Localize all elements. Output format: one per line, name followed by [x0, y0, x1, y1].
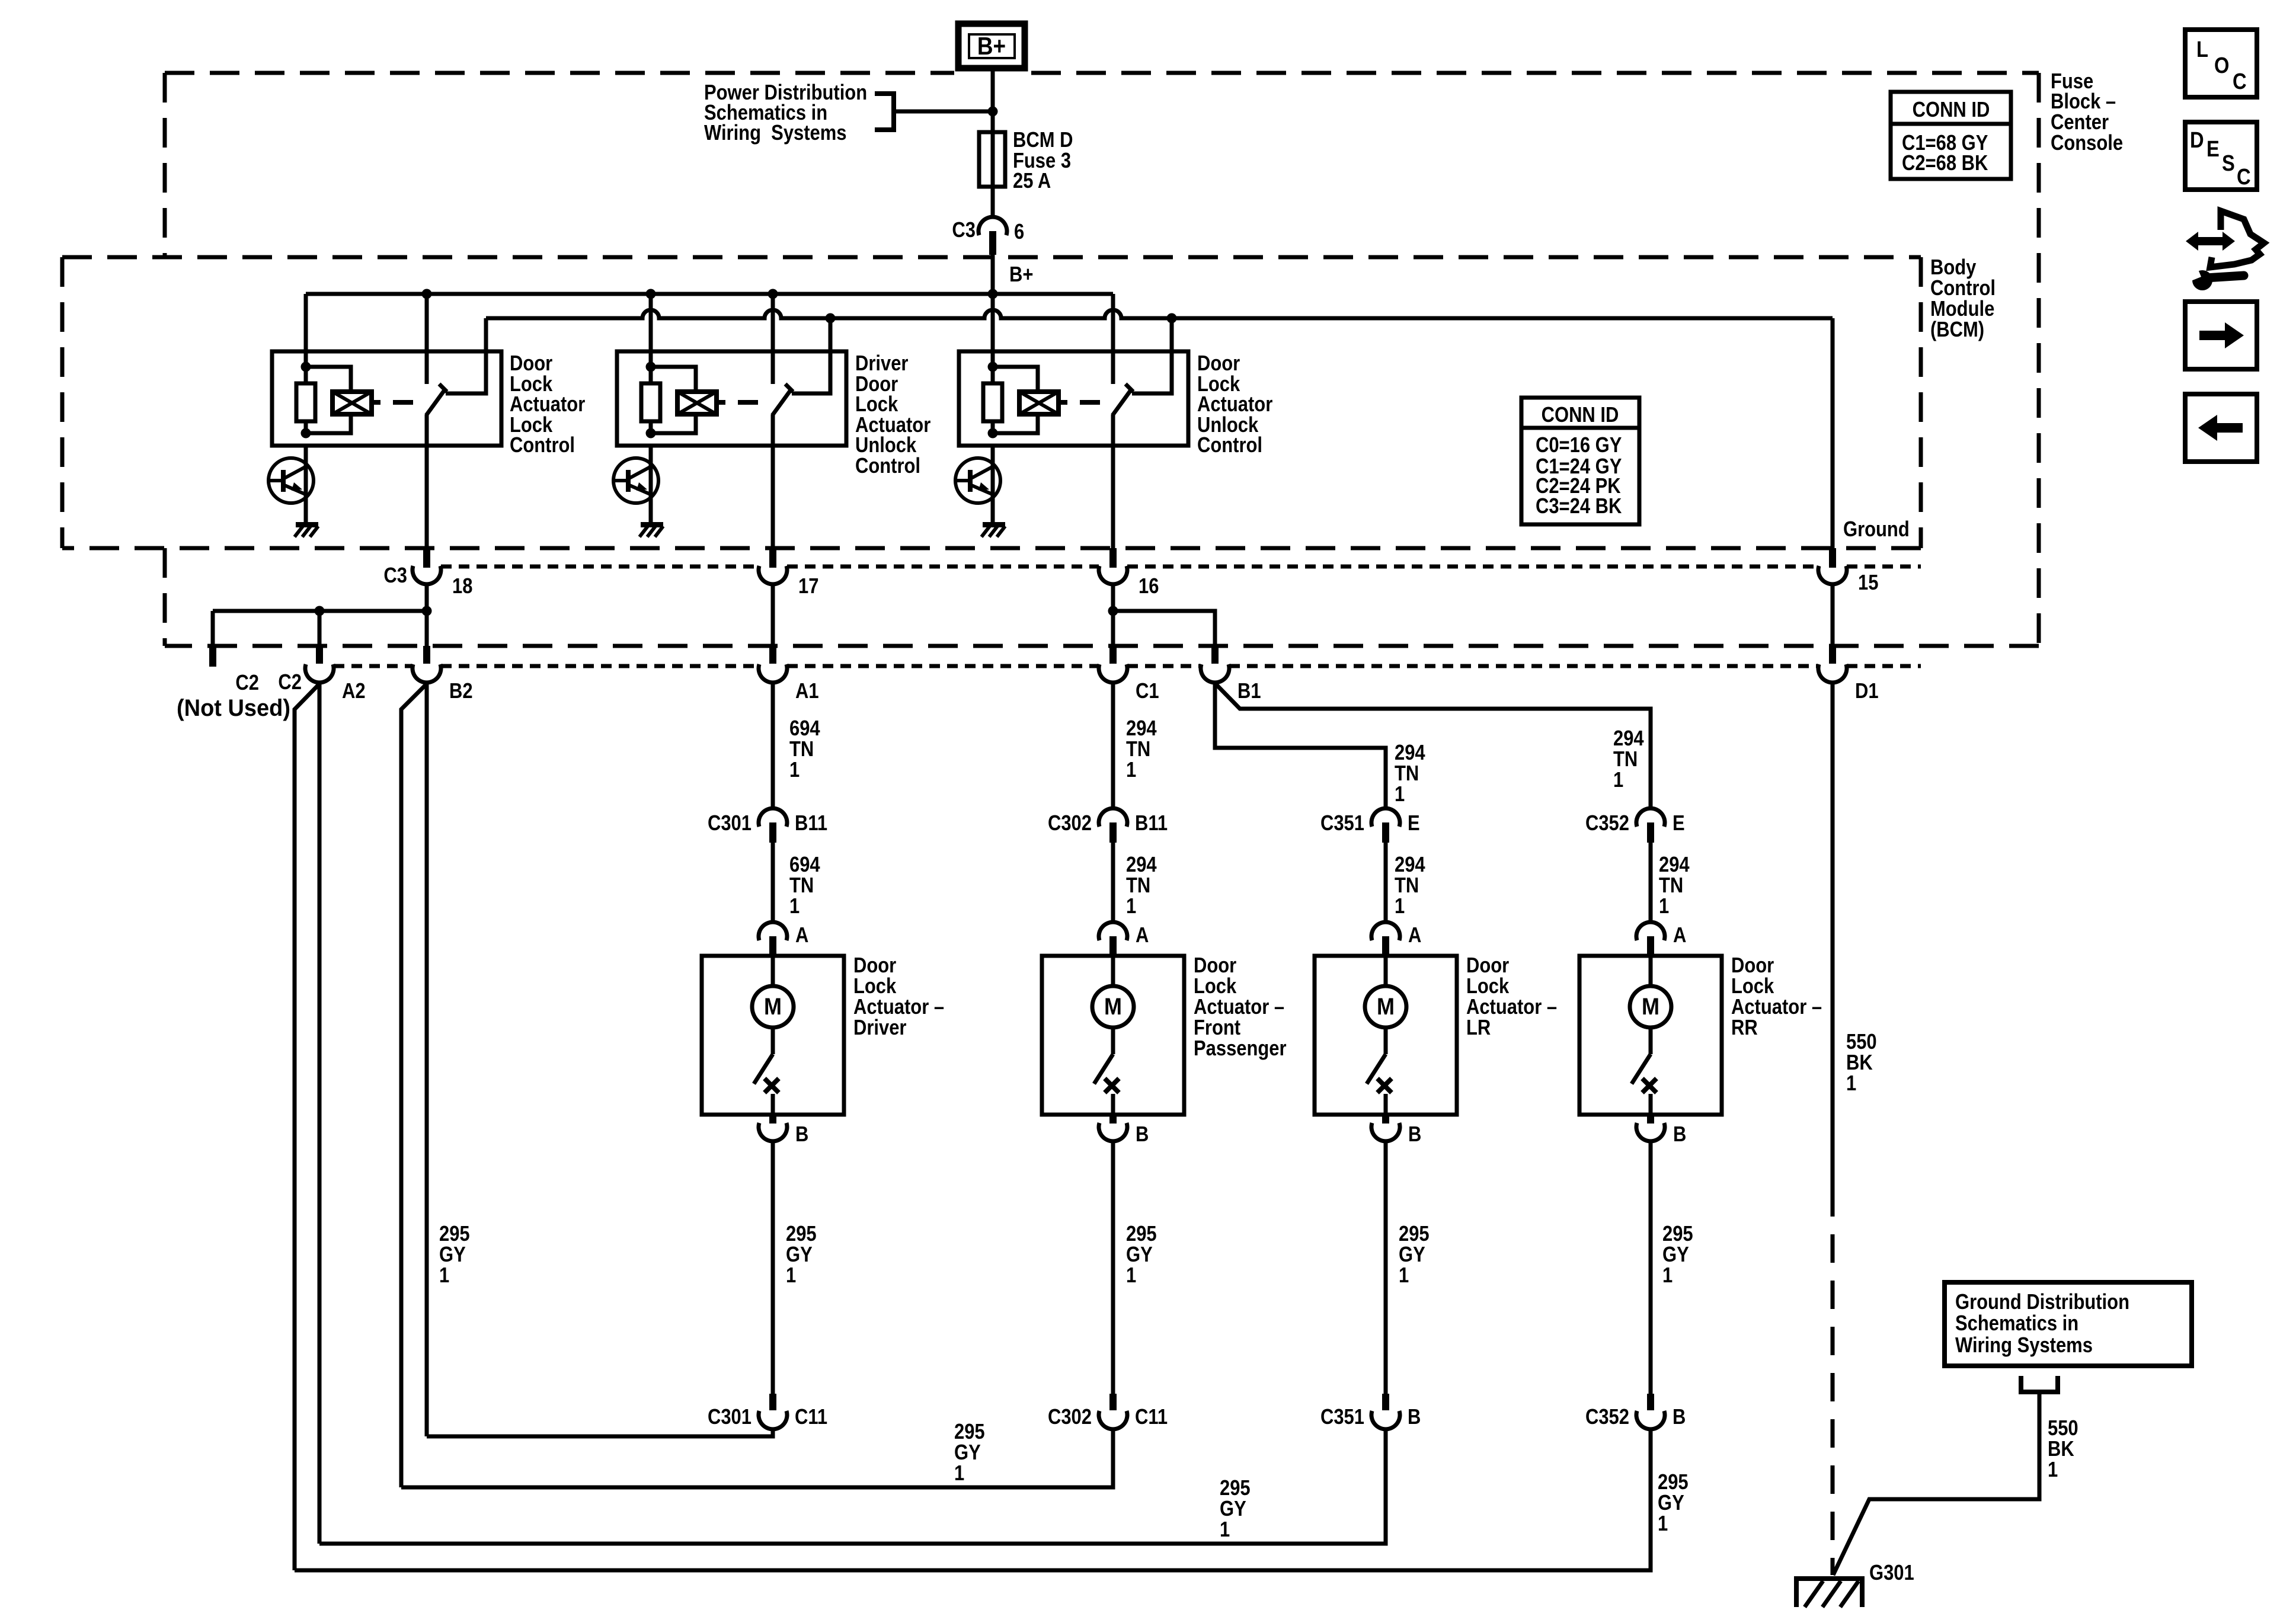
svg-text:1: 1: [2048, 1458, 2058, 1482]
relay switch fixed contact from B+: [771, 294, 775, 384]
connector C302 pin C11 lower: [1109, 1394, 1117, 1410]
svg-text:C352: C352: [1585, 1406, 1629, 1429]
svg-text:A: A: [1673, 924, 1686, 948]
wire driver actuator pin B down (295 GY): [771, 1141, 775, 1394]
transistor relay driver: [304, 446, 308, 524]
svg-text:GY: GY: [1658, 1491, 1684, 1515]
transistor relay driver: [649, 446, 653, 524]
svg-text:LR: LR: [1466, 1016, 1491, 1040]
wire C352 route to pin A2 diagonal wire: [295, 1429, 1651, 1570]
svg-text:1: 1: [786, 1264, 796, 1288]
node junction pin16 to B1: [1108, 606, 1118, 616]
svg-text:B2: B2: [449, 680, 473, 703]
connector actuator pin B (Driver): [769, 1115, 776, 1124]
relay coil top node: [988, 362, 998, 372]
relay switch fixed contact from B+: [1111, 294, 1115, 384]
svg-text:C302: C302: [1048, 812, 1092, 836]
svg-text:Actuator –: Actuator –: [1194, 996, 1284, 1019]
svg-text:B: B: [1408, 1406, 1421, 1429]
svg-text:C2: C2: [235, 671, 259, 695]
svg-text:C2: C2: [278, 671, 302, 694]
wire junction to pin A2: [318, 611, 322, 646]
svg-text:TN: TN: [1613, 748, 1638, 772]
motor M: [1092, 986, 1134, 1028]
svg-text:A: A: [1408, 924, 1421, 948]
resistor relay coil suppression: [304, 367, 308, 383]
svg-text:Wiring Systems: Wiring Systems: [1955, 1334, 2093, 1358]
svg-text:TN: TN: [1395, 762, 1419, 786]
connector C351 pin E: [1371, 808, 1400, 827]
connector actuator pin A (Driver): [759, 922, 787, 940]
connector C2 pin B1: [1211, 646, 1219, 664]
wire pin B1 to LR door lock actuator: [1215, 681, 1386, 808]
node B+ rail to relay2 switch: [768, 289, 778, 299]
svg-text:Actuator: Actuator: [510, 393, 585, 417]
wire parallel branch to solenoid: [306, 367, 351, 392]
svg-text:C3=24 BK: C3=24 BK: [1536, 495, 1622, 518]
svg-text:550: 550: [1846, 1030, 1877, 1054]
icon vehicle with double arrow and wrench: [2186, 232, 2235, 251]
svg-text:1: 1: [1662, 1264, 1673, 1288]
svg-text:BK: BK: [2048, 1438, 2074, 1461]
wire parallel branch to solenoid: [993, 367, 1038, 392]
motor internal switch: [1384, 1028, 1388, 1054]
svg-text:C: C: [2237, 164, 2251, 190]
svg-text:Lock: Lock: [1466, 975, 1510, 998]
door lock actuator motor box (RR): [1579, 956, 1722, 1115]
relay switch output wire: [1111, 415, 1115, 548]
relay coil bottom node: [301, 428, 311, 438]
relay switch ground contact feed: [446, 318, 486, 393]
svg-text:Lock: Lock: [855, 393, 898, 417]
svg-text:GY: GY: [1662, 1243, 1689, 1267]
svg-text:17: 17: [798, 575, 818, 598]
relay coil feed wire: [649, 294, 653, 367]
pin C2 not used stub: [209, 646, 216, 667]
svg-text:Actuator –: Actuator –: [853, 996, 944, 1019]
connector D1 to ground wire 550 BK solid: [1831, 683, 1835, 1188]
svg-text:C351: C351: [1320, 1406, 1364, 1429]
motor internal switch: [1649, 1028, 1653, 1054]
svg-text:GY: GY: [439, 1243, 466, 1267]
wire C352 to RR actuator pin A (294 TN): [1649, 843, 1653, 923]
svg-text:294: 294: [1126, 717, 1157, 741]
svg-text:Control: Control: [510, 434, 575, 457]
connector actuator pin B (LR): [1382, 1115, 1389, 1124]
svg-text:Center: Center: [2051, 111, 2109, 135]
icon LOC box: [2185, 30, 2257, 97]
wire note box to ground G301 (550 BK): [1833, 1392, 2039, 1575]
svg-text:B1: B1: [1237, 680, 1261, 703]
svg-text:294: 294: [1126, 853, 1157, 877]
svg-text:694: 694: [789, 853, 820, 877]
svg-text:E: E: [2207, 136, 2220, 162]
svg-text:Lock: Lock: [1731, 975, 1774, 998]
svg-text:1: 1: [1126, 895, 1136, 918]
connector C3 pin 18: [423, 548, 430, 568]
svg-text:15: 15: [1858, 571, 1878, 595]
svg-text:TN: TN: [789, 874, 814, 898]
svg-text:GY: GY: [954, 1441, 981, 1465]
relay switch output wire: [425, 415, 429, 548]
svg-text:Ground Distribution: Ground Distribution: [1955, 1291, 2129, 1314]
svg-text:Door: Door: [1194, 954, 1236, 978]
resistor relay coil suppression: [991, 367, 995, 383]
svg-text:1: 1: [1126, 1264, 1136, 1288]
svg-text:C302: C302: [1048, 1406, 1092, 1429]
svg-text:B: B: [795, 1123, 808, 1147]
svg-text:A2: A2: [342, 680, 366, 703]
wire junction bus to A2 and C2 not used: [213, 609, 427, 613]
svg-text:B: B: [1673, 1123, 1686, 1147]
svg-text:Actuator –: Actuator –: [1466, 996, 1557, 1019]
motor M: [752, 986, 794, 1028]
motor internal switch: [1111, 1028, 1115, 1054]
ground chassis at transistor: [296, 522, 318, 527]
svg-text:B: B: [1673, 1406, 1686, 1429]
svg-text:1: 1: [1399, 1264, 1409, 1288]
svg-text:1: 1: [1395, 783, 1405, 806]
connector C352 pin B lower: [1647, 1394, 1654, 1410]
ground chassis at transistor: [641, 522, 663, 527]
connector row C3 dotted line: [441, 565, 759, 569]
relay coil bottom node: [646, 428, 656, 438]
svg-text:C351: C351: [1320, 812, 1364, 836]
wire C301 route to pin B2 wire: [427, 1429, 773, 1436]
relay coil feed wire: [304, 294, 308, 367]
svg-text:(Not Used): (Not Used): [177, 695, 290, 721]
svg-text:Ground: Ground: [1843, 518, 1910, 542]
Body Control Module (BCM) dashed box: [62, 255, 1921, 260]
battery terminal B+: [958, 24, 1025, 68]
svg-text:294: 294: [1613, 727, 1644, 751]
Fuse Block - Center Console dashed box: [165, 71, 954, 75]
relay switch arm: [772, 389, 791, 415]
svg-text:E: E: [1408, 812, 1420, 836]
mechanical linkage dashed: [717, 400, 725, 405]
mechanical linkage dashed: [1059, 400, 1067, 405]
svg-text:Door: Door: [1731, 954, 1774, 978]
note box Ground Distribution Schematics in Wiring Systems: [1945, 1282, 2192, 1366]
svg-text:B+: B+: [977, 33, 1006, 60]
svg-text:1: 1: [1126, 758, 1136, 782]
svg-text:S: S: [2222, 151, 2235, 176]
wire pin A2 branch 2 diagonal (295 GY to RR): [295, 684, 319, 1570]
svg-text:C3: C3: [952, 219, 976, 242]
svg-text:BK: BK: [1846, 1051, 1873, 1075]
svg-text:Passenger: Passenger: [1194, 1037, 1287, 1061]
connector actuator pin A (LR): [1371, 922, 1400, 940]
node junction at pin18/B2: [422, 606, 432, 616]
wire branch to pin B1: [1113, 611, 1215, 646]
icon arrow right box: [2185, 302, 2257, 369]
motor internal switch: [771, 1028, 775, 1054]
door lock actuator motor box (Passenger): [1042, 956, 1184, 1115]
connector C2 pin A2: [316, 646, 323, 664]
svg-text:TN: TN: [1126, 738, 1150, 761]
relay switch ground contact feed: [1132, 318, 1172, 393]
switch X contact mark: [1377, 1078, 1392, 1093]
wire C302 to front passenger actuator pin A (294 TN): [1111, 843, 1115, 923]
CONN ID table BCM: [1521, 398, 1639, 524]
svg-text:1: 1: [1658, 1512, 1668, 1536]
relay switch arm: [1112, 389, 1131, 415]
svg-text:Driver: Driver: [855, 352, 908, 376]
relay switch arm: [426, 389, 445, 415]
wire pin 18 to junction: [425, 584, 429, 646]
node junction at fuse input: [988, 107, 998, 117]
svg-text:18: 18: [452, 575, 472, 598]
wire pin A1 to C301 (694 TN): [771, 681, 775, 808]
svg-text:Block –: Block –: [2051, 90, 2116, 114]
wire bracket to B+ node: [894, 110, 993, 114]
svg-text:C301: C301: [708, 1406, 752, 1429]
svg-text:O: O: [2214, 53, 2229, 78]
svg-text:(BCM): (BCM): [1930, 318, 1984, 342]
svg-text:Schematics in: Schematics in: [1955, 1312, 2078, 1336]
svg-text:16: 16: [1139, 575, 1159, 598]
svg-text:295: 295: [1220, 1477, 1251, 1500]
relay coil bottom node: [988, 428, 998, 438]
svg-text:C11: C11: [1135, 1406, 1168, 1429]
motor M: [1630, 986, 1671, 1028]
svg-text:694: 694: [789, 717, 820, 741]
svg-text:CONN ID: CONN ID: [1542, 404, 1619, 427]
svg-text:295: 295: [439, 1222, 470, 1246]
svg-text:295: 295: [1126, 1222, 1157, 1246]
connector C3 pin 16: [1109, 548, 1117, 568]
connector C2 pin D1: [1829, 646, 1836, 664]
svg-text:M: M: [764, 994, 782, 1020]
switch X contact mark: [1642, 1078, 1657, 1093]
wire C351 to LR actuator pin A (294 TN): [1384, 843, 1388, 923]
svg-text:B: B: [1136, 1123, 1149, 1147]
svg-text:E: E: [1673, 812, 1685, 836]
node junction to pin A2: [315, 606, 325, 616]
resistor relay coil suppression: [649, 367, 653, 383]
svg-text:1: 1: [1846, 1072, 1856, 1096]
transistor relay driver: [991, 446, 995, 524]
connector row C2 dotted line: [334, 664, 412, 668]
svg-text:Unlock: Unlock: [855, 434, 916, 457]
connector C3 pin 6: [978, 217, 1007, 235]
door lock actuator motor box (Driver): [702, 956, 844, 1115]
svg-text:1: 1: [789, 758, 800, 782]
wire pin 17 down to A1: [771, 584, 775, 646]
node B+ rail to relay1 switch: [422, 289, 432, 299]
svg-text:Lock: Lock: [853, 975, 897, 998]
svg-text:TN: TN: [1659, 874, 1683, 898]
svg-text:25 A: 25 A: [1013, 169, 1051, 193]
wire B+ rail inside BCM: [306, 292, 1113, 296]
svg-text:C0=16 GY: C0=16 GY: [1536, 434, 1622, 457]
connector bracket under note box: [2021, 1376, 2058, 1392]
relay box door lock (Driver): [617, 351, 846, 446]
wire fuse to connector C3 pin 6: [991, 187, 995, 218]
solenoid relay coil symbol: [677, 392, 717, 414]
node B+ rail at main feed: [988, 289, 998, 299]
svg-text:295: 295: [1399, 1222, 1430, 1246]
svg-text:B: B: [1408, 1123, 1421, 1147]
wire pin 16 down to C1: [1111, 584, 1115, 646]
svg-text:TN: TN: [1126, 874, 1150, 898]
svg-text:1: 1: [1395, 895, 1405, 918]
svg-text:GY: GY: [786, 1243, 813, 1267]
relay coil top node: [301, 362, 311, 372]
ground G301 symbol: [1796, 1579, 1862, 1607]
svg-text:B11: B11: [1135, 812, 1168, 836]
switch X contact mark: [1105, 1078, 1119, 1093]
wire pin B1 diagonal to RR door lock actuator: [1215, 683, 1651, 808]
solenoid relay coil symbol: [332, 392, 372, 414]
svg-text:1: 1: [439, 1264, 449, 1288]
svg-text:1: 1: [789, 895, 800, 918]
svg-text:550: 550: [2048, 1417, 2078, 1441]
svg-text:A: A: [1136, 924, 1149, 948]
svg-text:294: 294: [1395, 741, 1425, 765]
bracket for power distribution note: [875, 94, 894, 130]
svg-text:1: 1: [954, 1462, 964, 1486]
relay coil feed wire: [991, 294, 995, 367]
svg-text:C: C: [2233, 69, 2247, 94]
wire ground bus inside BCM: [486, 310, 1833, 318]
connector C302 pin B11: [1099, 808, 1127, 827]
svg-text:A: A: [795, 924, 808, 948]
svg-text:TN: TN: [789, 738, 814, 761]
svg-text:Door: Door: [1466, 954, 1509, 978]
svg-text:6: 6: [1014, 220, 1024, 244]
svg-text:Console: Console: [2051, 132, 2123, 155]
connector actuator pin A (Passenger): [1099, 922, 1127, 940]
svg-text:Control: Control: [855, 454, 920, 478]
node ground bus to relay2 contact: [826, 313, 836, 324]
svg-text:G301: G301: [1869, 1561, 1914, 1585]
svg-text:M: M: [1642, 994, 1659, 1020]
svg-text:B+: B+: [1009, 263, 1033, 287]
svg-text:294: 294: [1659, 853, 1690, 877]
switch X contact mark: [765, 1078, 779, 1093]
svg-text:L: L: [2196, 37, 2208, 62]
svg-text:Body: Body: [1930, 256, 1977, 280]
connector C351 pin B lower: [1382, 1394, 1389, 1410]
svg-text:BCM D: BCM D: [1013, 129, 1073, 152]
svg-text:295: 295: [954, 1420, 985, 1444]
svg-text:RR: RR: [1731, 1016, 1758, 1040]
wire C302 route to pin B2 diagonal wire: [401, 1429, 1113, 1487]
svg-text:Wiring Systems: Wiring Systems: [704, 121, 847, 145]
svg-text:TN: TN: [1395, 874, 1419, 898]
solenoid relay coil symbol: [1019, 392, 1059, 414]
fuse BCM D Fuse 3 25 A: [979, 132, 1005, 187]
svg-text:D1: D1: [1855, 680, 1879, 703]
relay box door lock (Door): [272, 351, 501, 446]
svg-text:Door: Door: [1197, 352, 1240, 376]
svg-text:M: M: [1104, 994, 1122, 1020]
wire RR actuator pin B down (295 GY): [1649, 1141, 1653, 1394]
svg-text:D: D: [2190, 127, 2204, 153]
connector C352 pin E: [1636, 808, 1665, 827]
relay switch fixed contact from B+: [425, 294, 429, 384]
connector actuator pin B (RR): [1647, 1115, 1654, 1124]
svg-text:295: 295: [786, 1222, 817, 1246]
connector C2 pin C1: [1109, 646, 1117, 664]
wire B+ terminal to fuse: [991, 68, 995, 134]
svg-text:Lock: Lock: [1194, 975, 1237, 998]
icon arrow left box: [2185, 394, 2257, 462]
relay switch output wire: [771, 415, 775, 548]
node ground bus to relay3 contact: [1167, 313, 1177, 324]
node B+ rail to relay2 coil: [646, 289, 656, 299]
CONN ID table fuse block: [1891, 92, 2011, 179]
svg-text:295: 295: [1662, 1222, 1693, 1246]
svg-text:GY: GY: [1399, 1243, 1425, 1267]
svg-text:M: M: [1377, 994, 1395, 1020]
svg-text:A1: A1: [795, 680, 819, 703]
svg-text:294: 294: [1395, 853, 1425, 877]
svg-text:C3: C3: [383, 564, 407, 588]
door lock actuator motor box (LR): [1315, 956, 1457, 1115]
svg-text:Front: Front: [1194, 1016, 1240, 1040]
svg-text:GY: GY: [1220, 1497, 1246, 1521]
svg-text:Driver: Driver: [853, 1016, 906, 1040]
mechanical linkage dashed: [372, 400, 380, 405]
svg-text:C2=68 BK: C2=68 BK: [1902, 152, 1988, 175]
svg-text:Actuator –: Actuator –: [1731, 996, 1822, 1019]
svg-text:B11: B11: [795, 812, 827, 836]
svg-text:Control: Control: [1197, 434, 1262, 457]
svg-text:C11: C11: [795, 1406, 827, 1429]
wire parallel branch to solenoid: [651, 367, 696, 392]
svg-text:Door: Door: [853, 954, 896, 978]
connector actuator pin B (Passenger): [1109, 1115, 1117, 1124]
wire pin C1 to C302 (294 TN): [1111, 681, 1115, 808]
svg-text:Door: Door: [510, 352, 552, 376]
connector actuator pin A (RR): [1636, 922, 1665, 940]
connector C301 pin B11: [759, 808, 787, 827]
relay coil top node: [646, 362, 656, 372]
svg-text:CONN ID: CONN ID: [1913, 98, 1990, 122]
wire LR actuator pin B down (295 GY): [1384, 1141, 1388, 1394]
wire C301 to driver actuator pin A (694 TN): [771, 843, 775, 923]
svg-text:GY: GY: [1126, 1243, 1153, 1267]
relay switch ground contact feed: [792, 318, 830, 393]
wire pin B2 branch 1 (295 GY to driver): [425, 681, 429, 1436]
connector C2 pin A1: [769, 646, 776, 664]
svg-text:1: 1: [1659, 895, 1669, 918]
wire ground bus to BCM pin 15: [1831, 318, 1835, 548]
wire C351 route to pin A2 wire: [319, 1429, 1386, 1544]
connector C3 pin 15: [1829, 548, 1836, 568]
icon DESC box: [2185, 122, 2257, 190]
wire pin 15 down to D1: [1831, 584, 1835, 646]
connector C3 pin 17: [769, 548, 776, 568]
svg-text:C1: C1: [1136, 680, 1159, 703]
svg-text:Control: Control: [1930, 277, 1996, 300]
svg-text:C352: C352: [1585, 812, 1629, 836]
svg-text:1: 1: [1613, 769, 1623, 792]
wire down to C2 not used pin: [211, 611, 215, 646]
connector C2 pin B2: [423, 646, 430, 664]
svg-text:Actuator: Actuator: [1197, 393, 1272, 417]
svg-text:1: 1: [1220, 1518, 1230, 1542]
svg-text:Module: Module: [1930, 297, 1994, 321]
svg-text:C301: C301: [708, 812, 752, 836]
relay box door lock (Door): [959, 351, 1188, 446]
wire 550 BK dashed section: [1831, 1188, 1835, 1575]
svg-text:295: 295: [1658, 1471, 1689, 1494]
wire pin A2 branch 1 (295 GY to LR): [318, 681, 322, 1544]
wire C3/6 into BCM B+ node: [991, 255, 995, 294]
